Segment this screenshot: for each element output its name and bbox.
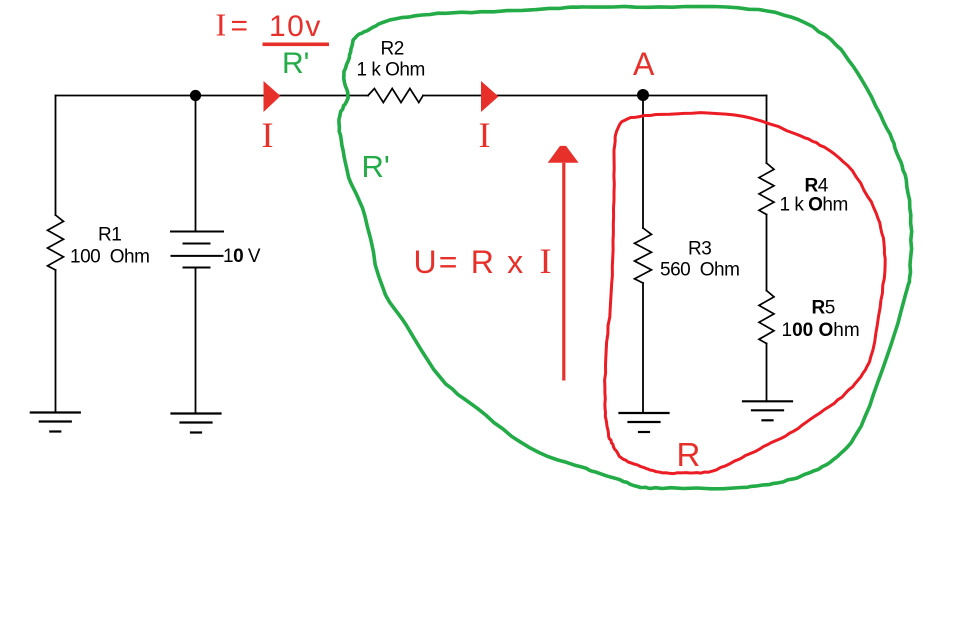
battery V1 10V [171,232,223,268]
svg-text:1 k Ohm: 1 k Ohm [780,195,848,216]
svg-text:R5: R5 [812,298,835,319]
wire top right horizontal from R2 to right corner [423,95,767,97]
svg-text:I: I [479,115,491,155]
ground below R3 [620,412,669,414]
formula fraction bar [263,43,330,47]
wire R4 to R5 [766,215,768,291]
svg-text:560 Ohm: 560 Ohm [660,260,739,281]
resistor R2 [368,89,423,103]
svg-text:I: I [216,7,227,43]
svg-text:R2: R2 [381,39,404,60]
svg-text:R4: R4 [805,176,829,197]
voltage arrow U (vertical, pointing up) [548,146,579,163]
svg-text:10v: 10v [269,10,322,43]
current arrow I (right, on wire) [481,81,499,112]
wire node to battery [195,96,197,232]
wire R5 to ground [766,344,768,402]
wire node A down to R3 [642,96,644,229]
svg-text:10 V: 10 V [223,246,261,267]
svg-text:R3: R3 [688,239,711,260]
wire left vertical upper (top corner to R1) [55,96,57,216]
svg-text:I: I [540,241,552,281]
ground below R5 [743,400,792,402]
svg-text:U= R x: U= R x [414,244,526,280]
svg-text:R': R' [282,47,309,80]
ground below R1 [31,411,80,413]
resistor R5 [759,291,774,344]
svg-text:=: = [231,10,249,43]
svg-text:1 k Ohm: 1 k Ohm [357,60,425,81]
red loop R (hand-drawn) [605,113,886,474]
wire battery to ground [195,268,197,414]
svg-text:100 Ohm: 100 Ohm [782,320,860,341]
svg-text:R: R [677,436,701,473]
resistor R1 [48,215,64,270]
svg-text:I: I [262,115,274,155]
wire R3 to ground [642,283,644,413]
svg-text:R1: R1 [98,225,121,246]
node junction dot (battery/R1 node) [190,90,201,101]
resistor R3 [635,228,652,283]
current arrow I (left, on wire) [264,81,281,112]
svg-text:A: A [633,46,655,82]
wire top left horizontal from left corner to R2 [56,95,369,97]
svg-text:100 Ohm: 100 Ohm [70,247,149,268]
node A junction dot [637,89,649,101]
resistor R4 [759,163,774,215]
green loop R' (hand-drawn) [339,6,912,488]
wire R1 to ground [55,270,57,413]
ground below battery [172,412,221,414]
svg-text:R': R' [362,149,390,184]
wire right branch top (corner down to R4) [766,96,768,164]
